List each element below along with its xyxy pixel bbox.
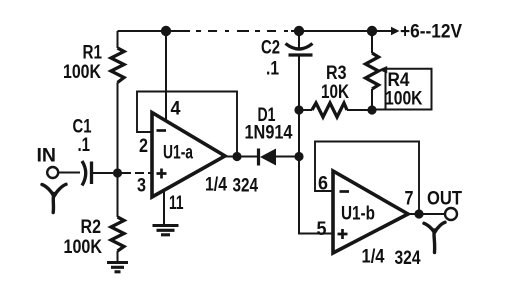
svg-text:1/4: 1/4 <box>362 247 385 268</box>
potentiometer R4 <box>366 53 379 89</box>
svg-text:100K: 100K <box>64 237 103 258</box>
wire node B down to pin 5 <box>299 157 333 234</box>
svg-text:10K: 10K <box>321 82 349 103</box>
svg-text:7: 7 <box>405 189 414 210</box>
svg-text:1/4: 1/4 <box>205 175 227 196</box>
label 324 U1-a <box>233 176 259 197</box>
svg-text:R3: R3 <box>326 63 347 84</box>
label R2 <box>81 217 102 238</box>
wire node C to node B <box>298 110 300 157</box>
label U1-a <box>163 143 193 164</box>
wire R3 right lead <box>347 109 372 111</box>
wire D1 to node B <box>276 156 299 158</box>
IN squiggle arrow <box>42 184 66 212</box>
label pin 7 <box>405 189 414 210</box>
OUT squiggle arrow <box>424 222 445 252</box>
terminal OUT circle <box>445 208 457 220</box>
svg-text:2: 2 <box>139 136 148 157</box>
label 100K R1 <box>63 62 101 83</box>
svg-text:C2: C2 <box>261 38 280 59</box>
op-amp U1-b <box>333 171 408 253</box>
svg-text:OUT: OUT <box>427 189 462 210</box>
svg-text:.1: .1 <box>78 135 91 156</box>
label R1 <box>83 43 103 64</box>
U1-b plus symbol <box>338 229 348 239</box>
label D1 <box>258 105 276 126</box>
label C1 <box>73 117 92 138</box>
label 1/4 U1-b <box>362 247 385 268</box>
wire pin 2 feedback loop <box>137 92 237 157</box>
R4 wiper arrow <box>379 66 388 73</box>
node U1-a output junction <box>232 152 241 161</box>
label pin 6 <box>318 174 328 195</box>
wire R4 bottom <box>371 89 373 110</box>
svg-text:11: 11 <box>169 193 184 214</box>
label 1/4 U1-a <box>205 175 227 196</box>
svg-text:+6--12V: +6--12V <box>400 22 462 43</box>
label C2 <box>261 38 280 59</box>
node C junction R3 left <box>294 105 303 114</box>
svg-text:IN: IN <box>37 146 57 167</box>
label OUT <box>427 189 462 210</box>
capacitor C1 <box>82 161 92 186</box>
svg-text:324: 324 <box>395 248 421 269</box>
node A junction <box>113 168 122 177</box>
node U1-b output junction <box>414 209 423 218</box>
node D junction R4 R3 <box>367 105 376 114</box>
wire IN to C1 <box>59 172 81 174</box>
label 100K R2 <box>64 237 103 258</box>
svg-text:R2: R2 <box>81 217 102 238</box>
label 10K <box>321 82 349 103</box>
node V+ junction C2 rail <box>294 26 304 36</box>
wire pin 4 <box>165 31 167 121</box>
diode D1 <box>259 149 277 166</box>
label pin 4 <box>171 99 181 120</box>
wire R2 bottom <box>117 251 119 262</box>
label pin 2 <box>139 136 148 157</box>
wire R1 top <box>117 31 119 48</box>
node V+ junction pin4 rail <box>161 26 171 36</box>
wire pin 6 feedback loop <box>315 142 419 215</box>
wire R3 left lead <box>299 109 312 111</box>
wire top rail dashed middle <box>178 30 293 32</box>
svg-text:4: 4 <box>171 99 181 120</box>
wire R4 top <box>371 31 373 53</box>
wire top rail right segment <box>291 30 372 32</box>
op-amp U1-a <box>152 113 225 198</box>
label 1N914 <box>245 123 293 144</box>
svg-text:100K: 100K <box>385 89 423 110</box>
wire U1-a output <box>224 156 258 158</box>
label +6--12V <box>400 22 462 43</box>
wire top rail left segment <box>118 30 179 32</box>
label .1 C1 <box>78 135 91 156</box>
label pin 5 <box>317 219 327 240</box>
label pin 11 <box>169 193 184 214</box>
resistor R3 <box>312 103 347 117</box>
node V+ junction R4 rail <box>367 26 377 36</box>
wire node A to pin 3 <box>122 172 152 174</box>
label 100K R4 <box>385 89 423 110</box>
U1-a minus symbol <box>157 129 167 132</box>
svg-text:.1: .1 <box>266 59 279 80</box>
wire C2 bottom <box>298 57 300 111</box>
wire C2 top <box>298 31 300 48</box>
ground R2 <box>107 263 128 272</box>
label 324 U1-b <box>395 248 421 269</box>
wire R1 bottom to node A <box>117 83 119 174</box>
svg-text:5: 5 <box>317 219 327 240</box>
U1-b minus symbol <box>340 190 350 193</box>
wire pin 11 <box>163 190 165 225</box>
R4 label box <box>372 69 432 110</box>
resistor R2 <box>111 217 124 251</box>
terminal IN circle <box>47 167 58 178</box>
label .1 C2 <box>266 59 279 80</box>
svg-text:U1-a: U1-a <box>163 143 193 164</box>
label U1-b <box>341 204 375 225</box>
svg-text:324: 324 <box>233 176 259 197</box>
wire C1 to node A <box>93 172 113 174</box>
svg-text:1N914: 1N914 <box>245 123 293 144</box>
wire supply arrow <box>372 27 400 35</box>
label IN <box>37 146 57 167</box>
wire U1-b output <box>407 213 445 215</box>
node B junction <box>294 152 303 161</box>
label pin 3 <box>137 176 146 197</box>
U1-a plus symbol <box>157 169 167 179</box>
label R3 <box>326 63 347 84</box>
label R4 <box>388 70 410 91</box>
resistor R1 <box>111 48 124 83</box>
capacitor C2 <box>286 44 313 56</box>
svg-text:3: 3 <box>137 176 146 197</box>
wire R2 top <box>117 173 119 217</box>
svg-text:U1-b: U1-b <box>341 204 375 225</box>
svg-text:R1: R1 <box>83 43 103 64</box>
svg-text:100K: 100K <box>63 62 101 83</box>
ground U1-a pin 11 <box>153 226 179 235</box>
